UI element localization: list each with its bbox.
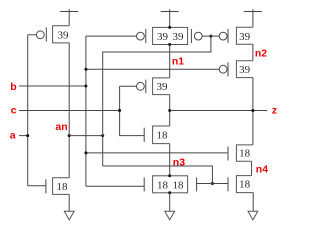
node gate junction (an to P2 right gate / P4 gate): [209, 35, 212, 38]
svg-text:18: 18: [239, 179, 251, 191]
transistor N1 nmos 18 (gate a, inverter pull-down): [28, 178, 69, 195]
svg-text:39: 39: [239, 31, 251, 43]
svg-text:c: c: [11, 105, 17, 117]
wire: c gate riser: [120, 86, 145, 135]
node b junction: [84, 85, 87, 88]
transistor N3 double nmos 18 18 (gates b and an): [86, 174, 228, 194]
wire: b branch to P5 gate: [86, 68, 219, 70]
svg-text:z: z: [272, 105, 277, 117]
transistor N2 nmos 18 (gate c, upper middle): [144, 126, 170, 144]
wire: net n4 (N5 to N6): [251, 161, 253, 175]
wire: net b vertical: [85, 36, 87, 186]
wire: z output: [170, 110, 268, 112]
wire: net an drain vertical (P1 drain to N1 drain): [68, 43, 70, 178]
svg-text:39: 39: [58, 30, 70, 42]
wire: N1 source to ground: [68, 194, 70, 211]
node a junction: [26, 134, 29, 137]
wire: b branch to N5 gate: [86, 152, 228, 154]
wire: b input stub: [19, 85, 86, 87]
wire: P5 drain down through z to N5 source: [252, 78, 254, 145]
ground symbol right: [248, 211, 258, 220]
svg-text:39: 39: [157, 31, 169, 43]
node an T-junction: [101, 134, 104, 137]
svg-text:an: an: [55, 121, 67, 133]
svg-text:39: 39: [239, 64, 251, 76]
wire: 18-18 source to ground: [169, 193, 171, 211]
ground symbol middle: [165, 211, 175, 220]
transistor P2 double pmos 39 39 (gates b and an): [86, 26, 219, 46]
transistor P5 pmos 39 (gate b): [219, 61, 253, 78]
svg-text:n2: n2: [255, 47, 267, 59]
node z right junction: [251, 109, 254, 112]
node b branch junction upper: [84, 68, 87, 71]
svg-text:39: 39: [173, 31, 185, 43]
svg-text:a: a: [10, 130, 16, 142]
svg-text:18: 18: [157, 179, 169, 191]
node an start: [68, 134, 71, 137]
svg-text:18: 18: [157, 130, 169, 142]
vdd rail symbol left: [60, 9, 78, 26]
vdd rail symbol middle: [161, 9, 179, 27]
transistor P1 pmos 39 (gate a, inverter pull-up): [28, 26, 69, 43]
wire: an riser to pmos gates: [103, 36, 211, 166]
node c junction: [118, 109, 121, 112]
wire: net a vertical: [27, 35, 29, 186]
wire: a input stub: [19, 135, 28, 137]
svg-text:n3: n3: [173, 156, 185, 168]
wire: P3 drain to z node: [169, 95, 171, 126]
svg-text:n1: n1: [172, 56, 184, 68]
svg-text:39: 39: [157, 81, 169, 93]
vdd rail symbol right: [244, 9, 262, 27]
transistor N6 nmos 18 (gate an, right lower): [228, 176, 253, 193]
node b branch junction lower: [84, 151, 87, 154]
svg-text:18: 18: [57, 181, 69, 193]
wire: net n3 vertical: [169, 144, 171, 176]
ground symbol left: [64, 211, 74, 220]
wire: c input: [19, 110, 120, 112]
node z left junction: [168, 109, 171, 112]
svg-text:b: b: [10, 81, 16, 93]
transistor P4 pmos 39 (gate an): [219, 27, 253, 44]
wire: net n1 (P2 drain to P3 source): [169, 45, 171, 78]
node an to N6 gate junction: [211, 182, 214, 185]
transistor N5 nmos 18 (gate b, right upper): [228, 145, 253, 161]
wire: N6 source to ground: [252, 193, 254, 212]
svg-text:n4: n4: [256, 163, 268, 175]
svg-text:18: 18: [173, 179, 185, 191]
wire: an horizontal: [69, 135, 103, 137]
wire: an dropper to nmos gates: [103, 166, 213, 184]
svg-text:18: 18: [239, 148, 251, 160]
wire: net n2 (P4 drain to P5 source): [252, 44, 254, 61]
transistor P3 pmos 39 (gate c): [120, 78, 170, 95]
